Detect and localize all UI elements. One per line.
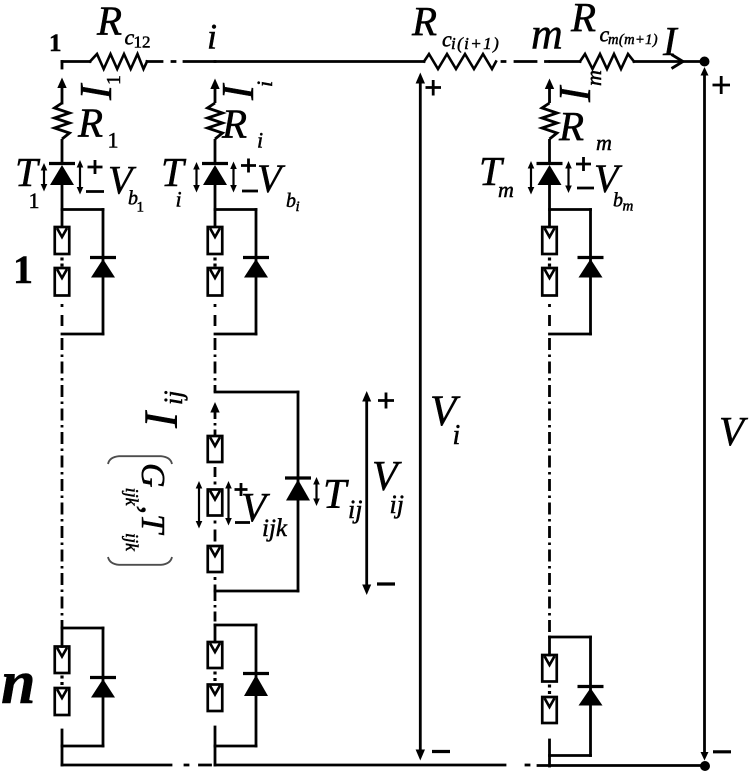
wire dash-dot arrow shaft Iij <box>214 412 217 436</box>
wire dots between cells (i,n) <box>213 672 216 682</box>
arrowhead current Im <box>545 79 554 90</box>
wire dots between cells (m,n) <box>548 685 551 695</box>
wire dash-dot below cells (1,1) <box>61 304 64 326</box>
svg-text:1: 1 <box>103 75 125 85</box>
svg-text:b: b <box>613 190 623 212</box>
wire top bus from node 1 to Rc12 <box>62 60 90 63</box>
measure arrow Vi head top <box>416 73 425 84</box>
wire bottom bus dash-dot 2 <box>526 764 529 767</box>
svg-text:ij: ij <box>390 490 404 519</box>
svg-text:R: R <box>77 100 103 146</box>
wire dash-dot below cells (m,1) <box>548 304 551 326</box>
wire bottom connector group (1,n) <box>62 745 103 748</box>
svg-text:T: T <box>323 472 349 518</box>
resistor Rc12 <box>90 54 147 69</box>
svg-text:1: 1 <box>108 128 119 153</box>
resistor Rm <box>542 103 557 139</box>
wire dash-dot column 1 middle <box>61 338 64 628</box>
svg-text:V: V <box>719 408 748 454</box>
measure arrow Tm left <box>528 161 535 195</box>
paren right of (Gijk,Tijk) rotated <box>108 557 172 565</box>
bypass diode group (i,n) bar <box>243 672 269 675</box>
plus sign Vij <box>378 393 394 409</box>
wire dots between cells (m,1) <box>548 258 551 267</box>
measure arrow Vij <box>362 391 371 595</box>
measure arrow Vijk left <box>196 481 203 529</box>
svg-text:n: n <box>1 649 35 717</box>
wire bottom connector group (i,j) <box>215 590 298 593</box>
paren left of (Gijk,Tijk) rotated <box>108 456 172 464</box>
wire top connector group (m,1) <box>550 208 591 211</box>
resistor Rcm(m+1) <box>580 54 634 69</box>
PV cell (1,n)a <box>55 647 70 674</box>
PV cell (i,1)b <box>208 268 223 296</box>
svg-text:1: 1 <box>13 247 33 292</box>
diode Tm triangle <box>538 165 562 185</box>
plus sign V <box>713 76 731 94</box>
diode Ti triangle <box>203 165 227 185</box>
minus sign V <box>713 750 731 753</box>
plus sign Vbi <box>241 159 256 173</box>
bypass diode Tij triangle <box>286 480 310 501</box>
svg-text:1: 1 <box>29 188 40 213</box>
svg-text:m: m <box>596 130 612 155</box>
minus sign Vijk <box>235 521 250 524</box>
bypass diode group (m,1) bar <box>578 256 604 259</box>
svg-text:Gijk,Tijk: Gijk,Tijk <box>122 463 171 552</box>
minus sign Vi <box>432 750 450 753</box>
wire dots between cells (1,n) <box>60 676 63 686</box>
PV cell (i,j)c <box>208 546 223 572</box>
minus sign Vbi <box>242 190 258 193</box>
wire Tm to group <box>548 185 551 227</box>
measure arrow Vijk right <box>225 481 232 526</box>
svg-text:R: R <box>558 103 584 149</box>
wire bottom connector group (i,1) <box>215 333 256 336</box>
wire stub above cell (m,n)a <box>548 637 551 655</box>
svg-text:1: 1 <box>49 30 62 57</box>
wire stub above cell (1,n)a <box>61 628 64 647</box>
PV cell (i,1)a <box>208 227 223 254</box>
wire top connector group (1,n) <box>62 627 103 630</box>
measure arrow Tij diode <box>313 477 320 506</box>
measure arrow Tm right <box>565 161 572 193</box>
bypass diode group (i,1) triangle <box>244 259 268 278</box>
svg-text:R: R <box>570 0 596 40</box>
wire dash-dot below cells (i,1) <box>214 304 217 326</box>
svg-text:i: i <box>296 199 300 215</box>
wire top bus Rc12 to node i (dash-dot) <box>147 60 215 63</box>
label Gijk,Tijk rotated <box>122 463 171 552</box>
resistor Ri <box>208 103 223 139</box>
wire below cell (1,n)b <box>61 730 64 746</box>
wire top bus node m to Rcm(m+1) <box>550 60 580 63</box>
svg-text:V: V <box>257 156 286 201</box>
wire dots between cells (i,1) <box>213 258 216 267</box>
arrowhead V line top <box>701 67 709 76</box>
wire dash-dot between cells (i,j) a-b <box>214 467 217 485</box>
svg-text:R: R <box>411 0 437 44</box>
minus sign Vij <box>377 582 395 585</box>
measure arrow Ti left <box>193 162 200 193</box>
svg-text:m(m+1): m(m+1) <box>608 32 658 48</box>
diode Ti cathode bar <box>202 162 228 165</box>
wire top connector group (m,n) <box>550 636 591 639</box>
resistor R1 <box>55 103 70 139</box>
minus sign Vbm <box>577 187 594 190</box>
bypass diode group (m,1) triangle <box>579 259 603 278</box>
measure arrow Vi head bottom <box>416 750 425 761</box>
svg-text:i: i <box>257 128 263 153</box>
PV cell (i,n)a <box>208 642 223 668</box>
PV cell (1,1)b <box>55 268 70 296</box>
wire bottom bus dash-dot 1 <box>185 764 211 767</box>
wire top connector group (i,j) <box>215 391 298 394</box>
wire Rm to diode Tm <box>548 139 551 163</box>
wire dash-dot column i lower middle <box>214 591 217 625</box>
PV cell (i,n)b <box>208 685 223 712</box>
wire bypass branch group (1,n) <box>102 628 105 746</box>
svg-text:m: m <box>623 199 634 215</box>
diode T1 cathode bar <box>49 162 75 165</box>
svg-text:i: i <box>252 81 277 87</box>
wire Ri to diode Ti <box>214 139 217 163</box>
PV cell (m,1)b <box>542 268 557 296</box>
PV cell (i,j)k <box>208 490 223 516</box>
wire arrow shaft Ii <box>214 88 217 103</box>
svg-text:i(i+1): i(i+1) <box>451 34 500 53</box>
plus sign Vb1 <box>88 160 103 174</box>
wire dash-dot between cells (i,j) k-c <box>214 521 217 542</box>
bypass diode group (1,n) bar <box>90 676 116 679</box>
wire bottom connector group (m,1) <box>550 333 591 336</box>
svg-text:I: I <box>135 410 188 429</box>
svg-text:m: m <box>581 70 606 86</box>
wire T1 to group <box>61 185 64 227</box>
arrowhead current Ii <box>210 79 219 90</box>
wire below cell (m,n)b <box>548 740 551 766</box>
svg-text:1: 1 <box>137 200 145 216</box>
wire dash-dot column m middle <box>548 338 551 637</box>
svg-text:b: b <box>286 190 296 212</box>
PV cell (1,1)a <box>55 227 70 254</box>
wire Ti to group <box>214 185 217 227</box>
node dot bottom right <box>700 761 710 771</box>
svg-text:R: R <box>96 0 122 44</box>
svg-text:I: I <box>662 18 679 64</box>
wire top connector group (1,1) <box>62 208 103 211</box>
wire stub above cell (i,n)a <box>214 625 217 642</box>
wire top bus Rci(i+1) to node m (dash-dot) <box>502 60 549 63</box>
wire arrow shaft I1 <box>61 87 64 103</box>
wire top bus with current arrow I <box>634 60 700 63</box>
wire group (i,n) to bottom bus <box>214 746 217 765</box>
arrowhead current I <box>672 55 684 69</box>
wire bypass branch group (m,1) <box>589 210 592 335</box>
arrowhead current Iij <box>210 402 219 413</box>
PV cell (m,n)a <box>542 655 557 682</box>
svg-text:R: R <box>221 101 247 147</box>
measure arrow T1 left <box>41 163 48 192</box>
wire dots between cells (1,1) <box>60 258 63 267</box>
bypass diode group (m,n) triangle <box>579 688 603 706</box>
wire bottom bus right <box>538 764 701 767</box>
diode T1 triangle <box>50 165 74 185</box>
wire bottom bus middle <box>215 764 505 767</box>
wire top bus node i to Rci(i+1) <box>215 60 424 63</box>
plus sign Vbm <box>576 157 591 171</box>
svg-text:12: 12 <box>134 33 151 52</box>
wire below cell (i,n)b <box>214 727 217 746</box>
bypass diode group (i,1) bar <box>243 256 269 259</box>
svg-text:m: m <box>498 177 514 202</box>
wire bypass branch group (i,1) <box>255 210 258 335</box>
plus sign Vijk <box>235 483 248 496</box>
PV cell (m,1)a <box>542 227 557 254</box>
wire group (1,n) to bottom bus <box>61 746 64 765</box>
wire stub below node 1 <box>61 62 64 69</box>
resistor Rci(i+1) <box>424 54 496 69</box>
wire dash-dot column i upper middle <box>214 338 217 392</box>
measure arrow Ti right <box>230 162 237 193</box>
svg-text:ijk: ijk <box>262 515 288 542</box>
svg-text:i: i <box>176 187 182 212</box>
bypass diode group (1,1) triangle <box>91 259 115 278</box>
measure arrow Vi line <box>419 79 422 754</box>
wire arrow shaft Im <box>548 88 551 103</box>
wire bottom connector group (i,n) <box>215 745 256 748</box>
svg-text:ij: ij <box>159 391 188 405</box>
bypass diode group (1,1) bar <box>90 256 116 259</box>
node dot top right <box>700 57 710 67</box>
wire R1 to diode T1 <box>61 139 64 163</box>
wire bypass branch group (1,1) <box>102 210 105 335</box>
wire bottom connector group (m,n) <box>550 754 591 757</box>
minus sign Vb1 <box>86 190 104 193</box>
svg-text:i: i <box>207 17 217 57</box>
wire top connector group (i,1) <box>215 208 256 211</box>
diode Tm cathode bar <box>537 162 563 165</box>
svg-text:m: m <box>531 10 563 59</box>
arrowhead current I1 <box>57 78 66 89</box>
measure arrow T1 right <box>77 160 84 195</box>
wire bypass branch group (i,j) <box>297 392 300 591</box>
bypass diode group (i,n) triangle <box>244 675 268 696</box>
wire bottom connector group (1,1) <box>62 333 103 336</box>
bypass diode Tij bar <box>285 476 311 479</box>
wire V line right <box>703 70 706 757</box>
svg-text:T: T <box>161 149 187 195</box>
wire dash-dot below cell (i,j)c <box>214 577 217 591</box>
wire bottom bus left <box>62 764 171 767</box>
svg-text:i: i <box>453 420 461 451</box>
bypass diode group (m,n) bar <box>578 685 604 688</box>
PV cell (i,j)a <box>208 436 223 462</box>
PV cell (m,n)b <box>542 697 557 723</box>
svg-text:ij: ij <box>348 495 362 524</box>
bypass diode group (1,n) triangle <box>91 679 115 698</box>
wire bypass branch group (i,n) <box>255 625 258 746</box>
wire bypass branch group (m,n) <box>589 637 592 756</box>
wire top connector group (i,n) <box>215 624 256 627</box>
plus sign Vi <box>426 80 442 96</box>
arrowhead V line bottom <box>701 752 709 761</box>
PV cell (1,n)b <box>55 688 70 715</box>
